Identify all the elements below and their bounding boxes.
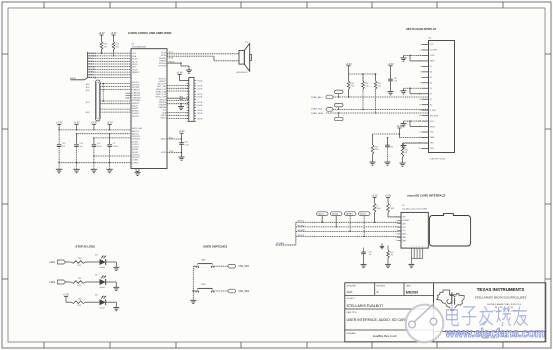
- svg-text:USER INTERFACE, AUDIO, SD CARD: USER INTERFACE, AUDIO, SD CARD: [347, 318, 408, 322]
- svg-text:SDCMD: SDCMD: [298, 225, 306, 227]
- svg-text:RW_WRZ: RW_WRZ: [430, 115, 439, 117]
- svg-text:WCLK: WCLK: [132, 64, 138, 66]
- svg-text:R11: R11: [78, 265, 81, 267]
- svg-text:DESIGNER: DESIGNER: [347, 286, 357, 288]
- svg-text:Green: Green: [100, 307, 105, 309]
- svg-text:AUDIO: AUDIO: [70, 77, 77, 80]
- svg-text:D7: D7: [430, 66, 432, 68]
- svg-text:SPOP: SPOP: [169, 52, 173, 54]
- svg-text:AG5: AG5: [86, 111, 89, 114]
- svg-text:D2: D2: [430, 93, 432, 95]
- svg-text:R36: R36: [351, 83, 354, 85]
- svg-text:microSD CARD INTERFACE: microSD CARD INTERFACE: [407, 194, 445, 198]
- svg-text:SPOM: SPOM: [169, 57, 174, 59]
- svg-text:BCLK: BCLK: [132, 61, 138, 63]
- svg-text:OLED_ADJ: OLED_ADJ: [311, 96, 322, 99]
- svg-text:330: 330: [78, 258, 81, 260]
- svg-text:AGND2: AGND2: [132, 112, 138, 115]
- svg-text:D1: D1: [430, 99, 432, 101]
- svg-text:PROJECT: PROJECT: [347, 298, 356, 300]
- svg-text:SPI_RX: SPI_RX: [88, 69, 96, 71]
- svg-text:AG2: AG2: [86, 86, 89, 89]
- svg-text:GPIO: GPIO: [88, 74, 93, 76]
- svg-text:AUDIO CODEC AND AMPLIFIER: AUDIO CODEC AND AMPLIFIER: [128, 31, 173, 35]
- svg-text:OLED_SCL: OLED_SCL: [311, 109, 323, 111]
- svg-text:AVDD 2: AVDD 2: [132, 132, 139, 135]
- svg-text:EvalBot Rev A sch: EvalBot Rev A sch: [373, 334, 397, 338]
- svg-text:VDD: VDD: [430, 148, 435, 150]
- svg-text:20: 20: [419, 148, 421, 150]
- svg-text:OD1 B: OD1 B: [197, 86, 203, 88]
- svg-text:RESET: RESET: [88, 72, 95, 74]
- svg-text:PAGE TITLE: PAGE TITLE: [347, 311, 358, 314]
- svg-text:2: 2: [420, 50, 421, 52]
- svg-text:R40: R40: [405, 150, 408, 152]
- svg-text:AVSS2: AVSS2: [132, 151, 138, 154]
- svg-text:GPIO2: GPIO2: [161, 118, 166, 120]
- svg-text:USR_SW1: USR_SW1: [238, 266, 250, 268]
- svg-text:SDCLK: SDCLK: [298, 221, 305, 223]
- svg-text:R16: R16: [116, 44, 119, 46]
- svg-text:OLED_SDA: OLED_SDA: [311, 112, 323, 115]
- svg-text:DAT2: DAT2: [402, 239, 406, 242]
- svg-text:REVISION: REVISION: [377, 286, 386, 288]
- svg-text:AVDD_DAC: AVDD_DAC: [132, 127, 143, 130]
- svg-text:8/9/2010: 8/9/2010: [406, 291, 419, 295]
- svg-text:R13: R13: [78, 305, 82, 307]
- svg-text:R12: R12: [78, 285, 82, 287]
- svg-text:PWDNZ: PWDNZ: [169, 61, 175, 63]
- svg-text:D3: D3: [430, 88, 432, 90]
- svg-text:OD4 A: OD4 A: [197, 104, 203, 107]
- svg-text:OD1 A: OD1 A: [197, 79, 203, 82]
- svg-text:DVDD: DVDD: [161, 152, 167, 154]
- svg-text:VCC: VCC: [430, 44, 435, 46]
- svg-text:14: 14: [419, 115, 421, 117]
- svg-text:R36: R36: [365, 83, 368, 85]
- svg-text:VLSS: VLSS: [430, 55, 435, 57]
- svg-text:5: 5: [420, 66, 421, 68]
- svg-text:D6: D6: [95, 295, 97, 297]
- svg-text:AVDD 1: AVDD 1: [132, 130, 139, 133]
- svg-text:MCLK: MCLK: [132, 59, 138, 61]
- svg-text:SDDAT0: SDDAT0: [346, 213, 353, 216]
- svg-text:U5: U5: [402, 205, 404, 207]
- svg-text:8: 8: [420, 82, 421, 84]
- svg-text:www.elecfans.com: www.elecfans.com: [445, 327, 545, 340]
- svg-text:R16: R16: [104, 44, 107, 46]
- svg-text:P3: P3: [245, 42, 247, 44]
- svg-text:AVSS1: AVSS1: [132, 148, 138, 151]
- svg-text:D0: D0: [430, 104, 432, 106]
- svg-text:STELLARIS® MICROCONTROLLERS: STELLARIS® MICROCONTROLLERS: [475, 295, 527, 299]
- svg-text:FILENAME: FILENAME: [347, 332, 357, 335]
- svg-text:TEXAS INSTRUMENTS: TEXAS INSTRUMENTS: [477, 287, 525, 292]
- svg-text:E_RDZ: E_RDZ: [430, 110, 437, 112]
- svg-text:DOUT: DOUT: [132, 69, 138, 71]
- svg-text:USER SWITCHES: USER SWITCHES: [203, 245, 227, 249]
- svg-text:I2C0SCL: I2C0SCL: [88, 53, 97, 55]
- svg-text:microSD card connector SMT: microSD card connector SMT: [402, 207, 428, 210]
- svg-text:DATE: DATE: [406, 285, 411, 288]
- svg-text:A: A: [377, 290, 379, 294]
- svg-text:SDDAT0: SDDAT0: [298, 229, 305, 232]
- svg-text:C20: C20: [184, 142, 187, 144]
- svg-text:11: 11: [419, 99, 421, 101]
- svg-text:SDCSZ: SDCSZ: [298, 235, 305, 237]
- svg-text:330: 330: [78, 278, 81, 280]
- svg-text:17: 17: [419, 132, 421, 134]
- svg-text:1uF: 1uF: [369, 254, 372, 256]
- svg-text:SDCMD: SDCMD: [332, 214, 339, 216]
- svg-text:BCLK: BCLK: [88, 61, 94, 63]
- svg-text:OD5 A: OD5 A: [197, 112, 203, 115]
- svg-text:7: 7: [420, 77, 421, 79]
- svg-text:SDCLK: SDCLK: [318, 214, 325, 216]
- svg-text:AGND1: AGND1: [132, 110, 138, 113]
- svg-text:AG4: AG4: [86, 101, 89, 104]
- svg-text:OD4 B: OD4 B: [197, 110, 203, 112]
- svg-text:MCLK: MCLK: [88, 58, 94, 60]
- svg-text:D5: D5: [95, 274, 97, 276]
- svg-text:SDCARD: SDCARD: [276, 242, 285, 245]
- svg-text:VCOMH: VCOMH: [430, 50, 438, 52]
- svg-text:SCL: SCL: [132, 53, 136, 55]
- svg-text:330: 330: [78, 298, 81, 300]
- svg-text:D5: D5: [430, 77, 432, 79]
- svg-text:96X16 OLED DISPLAY: 96X16 OLED DISPLAY: [406, 27, 436, 31]
- svg-text:MICBIAS: MICBIAS: [132, 99, 140, 102]
- svg-text:OD2 B: OD2 B: [197, 94, 203, 96]
- svg-text:RESETZ: RESETZ: [132, 72, 140, 74]
- svg-text:AG3: AG3: [86, 89, 89, 92]
- svg-text:OD2 A: OD2 A: [197, 87, 203, 90]
- svg-text:R50: R50: [375, 147, 378, 149]
- svg-text:12: 12: [419, 104, 421, 106]
- svg-text:HPLCOM: HPLCOM: [159, 66, 167, 68]
- svg-text:JAO: JAO: [347, 290, 354, 294]
- svg-text:SDCSZ: SDCSZ: [360, 214, 367, 216]
- svg-text:DVSS2: DVSS2: [132, 162, 138, 164]
- svg-text:Green: Green: [100, 287, 105, 289]
- svg-text:13: 13: [419, 110, 421, 112]
- svg-text:OD5 B: OD5 B: [197, 118, 203, 120]
- svg-text:RESZ: RESZ: [430, 126, 436, 128]
- svg-text:DAT1: DAT1: [402, 236, 406, 239]
- svg-text:I2C0SDA: I2C0SDA: [88, 55, 97, 58]
- svg-text:STELLARIS EVALBOT: STELLARIS EVALBOT: [347, 304, 384, 308]
- svg-text:STATUS LEDS: STATUS LEDS: [75, 245, 95, 249]
- svg-text:USR_SW2: USR_SW2: [238, 291, 250, 293]
- svg-text:LED2: LED2: [50, 282, 56, 284]
- svg-text:6: 6: [420, 71, 421, 73]
- svg-text:OLED KIT P11756: OLED KIT P11756: [430, 158, 445, 160]
- svg-text:Green: Green: [100, 267, 105, 269]
- svg-text:0.33uF: 0.33uF: [113, 146, 119, 148]
- svg-text:AS1-00508-R: AS1-00508-R: [237, 71, 249, 74]
- svg-text:CD/DAT3: CD/DAT3: [402, 219, 409, 222]
- svg-text:D4: D4: [430, 82, 432, 84]
- svg-text:1: 1: [420, 44, 421, 46]
- svg-text:1uF: 1uF: [394, 81, 397, 83]
- svg-text:AVDD: AVDD: [161, 138, 166, 141]
- svg-text:J6: J6: [95, 78, 97, 80]
- svg-text:C80: C80: [390, 147, 393, 149]
- svg-text:HPVSS: HPVSS: [132, 116, 139, 118]
- svg-text:AG1: AG1: [86, 83, 89, 86]
- svg-text:SPI_TX: SPI_TX: [88, 66, 95, 68]
- svg-text:R36: R36: [378, 83, 381, 85]
- svg-text:LED1: LED1: [50, 262, 56, 264]
- svg-text:WCLK: WCLK: [88, 64, 94, 66]
- svg-text:DAT0: DAT0: [402, 233, 406, 236]
- svg-text:OD3 A: OD3 A: [197, 96, 203, 99]
- svg-text:D6: D6: [430, 72, 432, 74]
- svg-text:OD3 B: OD3 B: [197, 102, 203, 104]
- svg-text:TLV320AIC3107: TLV320AIC3107: [132, 46, 148, 49]
